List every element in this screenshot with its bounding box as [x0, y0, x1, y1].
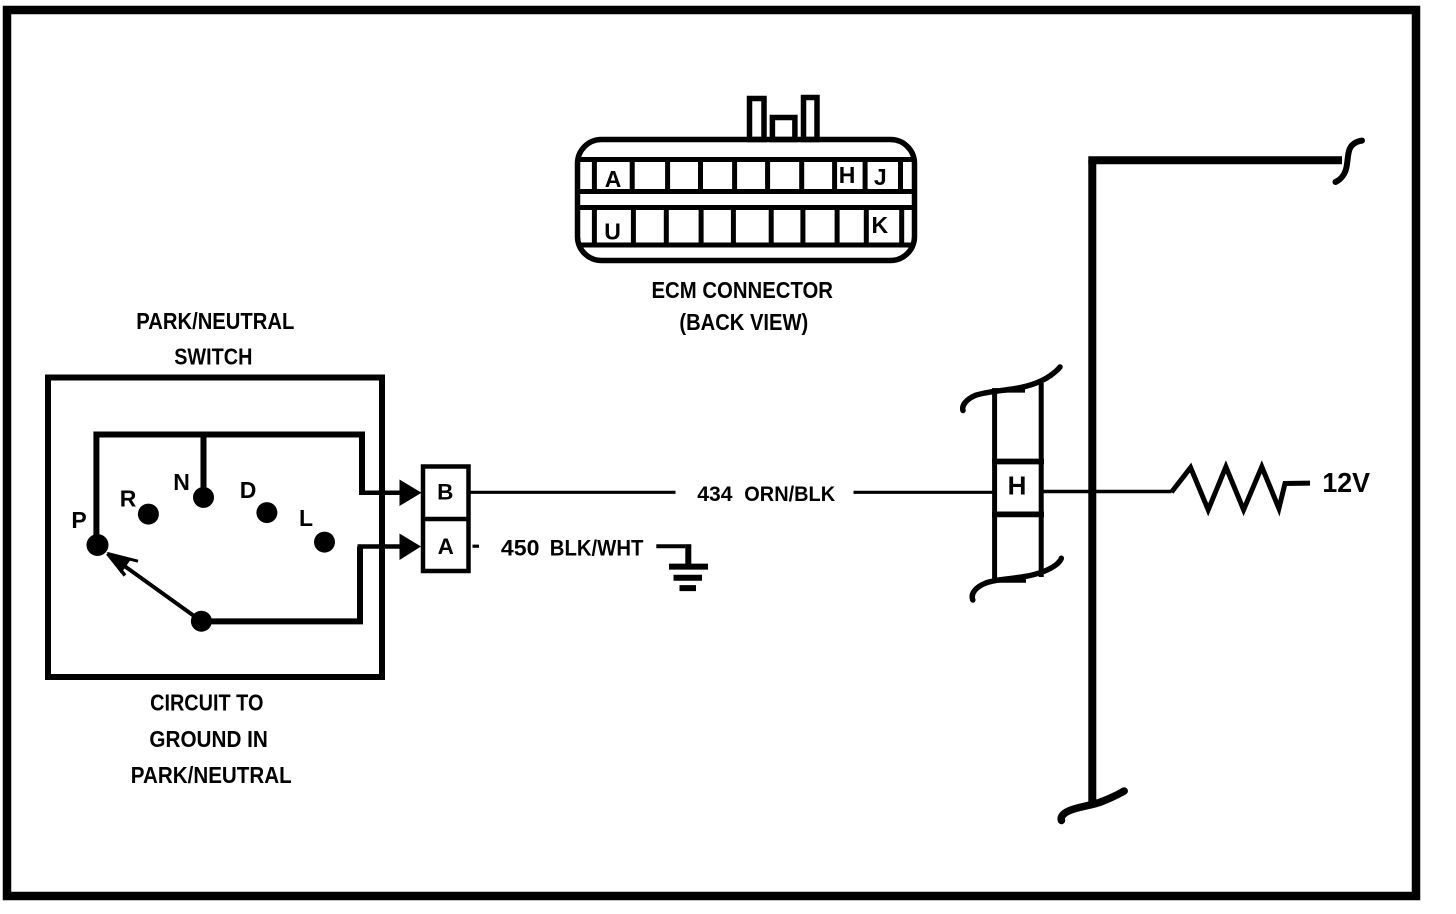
- contact D: [256, 502, 277, 523]
- contact P: [87, 534, 109, 556]
- wire 434 left segment: [471, 491, 676, 494]
- svg-text:D: D: [240, 477, 257, 503]
- ECM connector tab middle: [772, 118, 795, 140]
- contact pivot: [191, 611, 212, 632]
- svg-text:K: K: [871, 212, 888, 238]
- switch arm: [110, 556, 201, 622]
- svg-text:ORN/BLK: ORN/BLK: [744, 482, 835, 506]
- wire: N contact stub: [201, 435, 207, 493]
- svg-text:B: B: [437, 479, 453, 504]
- ECM connector top row dividers: [594, 160, 900, 192]
- wire: to pin B: [359, 490, 400, 495]
- svg-text:N: N: [173, 469, 190, 495]
- connector pins B/A block: [423, 467, 469, 572]
- arrow into pin A: [400, 534, 422, 561]
- svg-text:12V: 12V: [1322, 467, 1370, 498]
- wire: top horizontal branch: [1088, 156, 1342, 164]
- wire: long vertical branch: [1088, 160, 1096, 807]
- ECM connector row lines: [577, 160, 915, 246]
- break mark top right: [1336, 141, 1363, 182]
- svg-text:PARK/NEUTRAL: PARK/NEUTRAL: [136, 308, 294, 334]
- ground: [669, 567, 708, 589]
- switch arm arrowhead: [107, 552, 131, 574]
- contact R: [138, 504, 159, 525]
- wire: feed to pin A: [358, 544, 400, 549]
- wire 450 to ground: [656, 544, 685, 548]
- svg-text:BLK/WHT: BLK/WHT: [550, 536, 644, 561]
- ECM connector body: [578, 140, 915, 261]
- connector U1 ECM (back view): [577, 98, 915, 261]
- arrow into pin B: [400, 480, 422, 507]
- wire from strip to resistor: [1043, 490, 1172, 493]
- svg-text:A: A: [605, 166, 622, 192]
- break mark bottom of strip: [972, 558, 1061, 600]
- wire: pivot to pin A: [201, 547, 360, 622]
- ECM connector tab 2: [804, 98, 818, 140]
- svg-text:(BACK VIEW): (BACK VIEW): [679, 309, 808, 335]
- wire: switch internal top bus: [96, 435, 362, 541]
- svg-text:H: H: [1008, 471, 1027, 501]
- break mark top of strip: [963, 367, 1060, 411]
- svg-text:GROUND IN: GROUND IN: [149, 726, 268, 752]
- svg-text:ECM CONNECTOR: ECM CONNECTOR: [652, 277, 834, 303]
- svg-text:J: J: [874, 164, 887, 190]
- wire 434 right segment: [854, 491, 995, 494]
- ECM connector bottom row dividers: [594, 208, 901, 246]
- svg-text:R: R: [120, 485, 137, 511]
- inline connector C100 (strip): [992, 383, 1044, 582]
- svg-text:A: A: [438, 534, 454, 559]
- svg-text:L: L: [299, 505, 313, 531]
- contact N: [193, 487, 214, 508]
- break mark bottom of vertical: [1061, 791, 1124, 821]
- svg-text:P: P: [71, 507, 86, 533]
- resistor R1: [1172, 467, 1311, 510]
- wire 450 stub at pin A: [473, 545, 480, 548]
- svg-text:SWITCH: SWITCH: [174, 344, 252, 370]
- svg-text:H: H: [839, 162, 856, 188]
- ECM connector tab 1: [750, 99, 765, 140]
- contact L: [314, 532, 335, 553]
- svg-text:434: 434: [697, 482, 732, 506]
- svg-text:CIRCUIT TO: CIRCUIT TO: [150, 690, 263, 716]
- svg-text:U: U: [604, 219, 621, 245]
- svg-text:450: 450: [501, 536, 540, 561]
- svg-text:PARK/NEUTRAL: PARK/NEUTRAL: [131, 762, 292, 788]
- park/neutral switch S1 box: [48, 378, 382, 678]
